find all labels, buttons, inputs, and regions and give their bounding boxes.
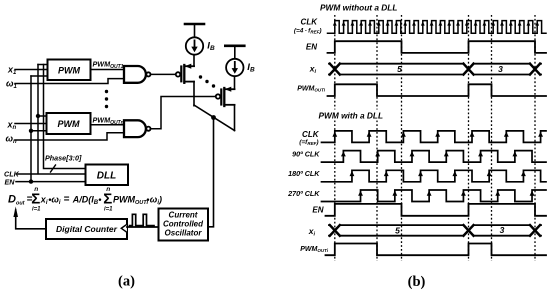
svg-text:Oscillator: Oscillator bbox=[165, 229, 203, 238]
label PWM_OUTi top bbox=[297, 86, 326, 93]
PWM block U2 bbox=[47, 113, 91, 134]
svg-text:Phase[3:0]: Phase[3:0] bbox=[45, 154, 82, 163]
svg-text:EN: EN bbox=[5, 177, 16, 186]
NAND gate G1 bbox=[124, 66, 150, 83]
waveform PWM_OUTi top bbox=[328, 84, 547, 96]
label CLK (=fREF) bbox=[299, 130, 320, 146]
wire EN bus vertical bbox=[31, 76, 48, 182]
svg-text:5: 5 bbox=[395, 225, 400, 235]
waveform EN bottom bbox=[326, 204, 547, 216]
wire Q2 drain down bbox=[234, 105, 236, 131]
svg-text:(b): (b) bbox=[408, 274, 426, 290]
value 5 top bbox=[397, 64, 402, 74]
node w1 input label bbox=[6, 79, 18, 91]
label (a) bbox=[118, 273, 135, 289]
label 180 CLK bbox=[288, 169, 320, 178]
junction EN to PWM U2 bbox=[29, 129, 47, 133]
timing grid dashed cursors bbox=[335, 15, 535, 261]
wire Q2 source to current source I_B2 bbox=[234, 77, 236, 90]
wire wn to NAND G2 bbox=[15, 133, 124, 140]
Digital Counter block U4 bbox=[46, 219, 127, 239]
waveform 180 CLK bbox=[322, 170, 547, 182]
label PWM_OUTi bottom bbox=[300, 246, 329, 253]
wire NAND G1 out to PMOS Q1 gate bbox=[151, 73, 176, 75]
label xi top bbox=[309, 64, 317, 75]
wire summing node to CCO bbox=[208, 118, 214, 227]
svg-text:3: 3 bbox=[498, 64, 503, 74]
svg-text:270º CLK: 270º CLK bbox=[287, 189, 320, 198]
transistor Q1 (PMOS) bbox=[176, 64, 194, 83]
wire x1 to PWM U1 bbox=[15, 69, 48, 71]
title PWM with a DLL bbox=[316, 110, 394, 121]
svg-text:CLK: CLK bbox=[301, 18, 319, 27]
DLL block U3 bbox=[86, 165, 129, 186]
wire Digital Counter to Dout arrow bbox=[16, 210, 46, 229]
svg-text:i=1: i=1 bbox=[32, 207, 41, 213]
wire PWM U2 output to NAND G2 bbox=[91, 124, 125, 126]
svg-text:DLL: DLL bbox=[97, 171, 116, 182]
wire xn to PWM U2 bbox=[15, 123, 47, 125]
svg-text:•: • bbox=[98, 194, 101, 204]
arrowhead into Digital Counter bbox=[121, 224, 127, 232]
svg-text:Controlled: Controlled bbox=[163, 220, 204, 229]
wire EN to DLL bbox=[16, 181, 86, 183]
label CLK bbox=[4, 170, 20, 179]
wire Phase bus vertical bbox=[44, 65, 86, 169]
svg-text:ωi): ωi) bbox=[150, 194, 162, 206]
svg-text:90º CLK: 90º CLK bbox=[292, 150, 320, 159]
label 270 CLK bbox=[287, 189, 320, 198]
svg-text:Current: Current bbox=[169, 211, 198, 220]
wire CLK bus vertical bbox=[38, 65, 48, 174]
title PWM without a DLL bbox=[320, 2, 397, 12]
waveform CLK bbox=[322, 131, 547, 143]
waveform 270 CLK bbox=[322, 190, 547, 202]
label 90 CLK bbox=[292, 150, 320, 159]
label PWM_OUT1 bbox=[93, 60, 124, 71]
waveform CLK 4x bbox=[328, 21, 547, 34]
arrowhead to Dout bbox=[13, 207, 18, 218]
wire PWM U1 output to NAND G1 bbox=[91, 69, 125, 71]
svg-text:PWM without a DLL: PWM without a DLL bbox=[320, 2, 397, 12]
bus slash Phase[3:0] bbox=[51, 165, 56, 172]
junction EN line bbox=[29, 179, 33, 183]
svg-text:EN: EN bbox=[312, 206, 323, 215]
label EN bottom bbox=[312, 206, 323, 215]
current source I_B2 bbox=[225, 46, 244, 76]
svg-text:Digital Counter: Digital Counter bbox=[56, 224, 118, 234]
wire w1 to NAND G1 bbox=[15, 79, 124, 84]
label xi bottom bbox=[308, 226, 316, 237]
Current Controlled Oscillator block U5 bbox=[159, 209, 209, 241]
svg-text:=: = bbox=[64, 194, 70, 205]
wire NAND G2 out to PMOS Q2 gate bbox=[151, 97, 216, 129]
node wn input label bbox=[6, 134, 18, 146]
junction summing node bbox=[211, 115, 216, 120]
wire CCO to Digital Counter bbox=[127, 226, 159, 228]
svg-text:(a): (a) bbox=[118, 273, 135, 289]
label EN top bbox=[306, 43, 317, 52]
value 5 bottom bbox=[395, 225, 400, 235]
ellipsis dots between PWM stages bbox=[105, 90, 108, 108]
node xn input label bbox=[7, 120, 17, 132]
value 3 bottom bbox=[500, 225, 505, 235]
svg-text:PWM with a DLL: PWM with a DLL bbox=[319, 110, 384, 120]
waveform 90 CLK bbox=[322, 151, 547, 163]
NAND gate G2 bbox=[124, 120, 150, 137]
label I_B1 bbox=[207, 40, 215, 52]
node x1 input label bbox=[7, 65, 17, 77]
svg-text:n: n bbox=[34, 186, 38, 193]
wire drain summing diagonal bbox=[194, 105, 235, 131]
svg-text:PWM: PWM bbox=[58, 65, 80, 75]
label I_B2 bbox=[247, 62, 255, 74]
label PWM_OUTn bbox=[93, 116, 124, 127]
label (b) bbox=[408, 274, 426, 290]
svg-text:PWM: PWM bbox=[58, 119, 80, 129]
label Phase[3:0] bbox=[45, 154, 82, 163]
wire CLK to DLL bbox=[18, 173, 86, 175]
pulse train symbol bbox=[130, 214, 155, 225]
PWM block U1 bbox=[48, 60, 91, 81]
waveform PWM_OUTi bottom bbox=[326, 244, 547, 256]
svg-text:3: 3 bbox=[500, 225, 505, 235]
current source I_B1 bbox=[185, 24, 204, 55]
svg-text:i=1: i=1 bbox=[104, 207, 113, 213]
equation Dout bbox=[8, 186, 162, 213]
value 3 top bbox=[498, 64, 503, 74]
wire Q1 source to current source I_B1 bbox=[193, 55, 195, 67]
svg-text:n: n bbox=[106, 186, 110, 193]
svg-text:EN: EN bbox=[306, 43, 317, 52]
svg-text:180º CLK: 180º CLK bbox=[288, 169, 320, 178]
svg-text:5: 5 bbox=[397, 64, 402, 74]
label CLK (=4 fREF) bbox=[294, 18, 322, 35]
transistor Q2 (PMOS) bbox=[216, 87, 235, 106]
svg-text:CLK: CLK bbox=[302, 130, 320, 139]
waveform xi bus bottom bbox=[329, 225, 541, 236]
label EN bbox=[5, 177, 16, 186]
waveform xi bus top bbox=[329, 64, 541, 75]
wire Q1 drain down bbox=[193, 82, 195, 106]
waveform EN top bbox=[328, 41, 547, 53]
junction CLK to PWM U2 bbox=[36, 114, 47, 118]
ellipsis dots between Q1 and Q2 bbox=[199, 75, 215, 87]
